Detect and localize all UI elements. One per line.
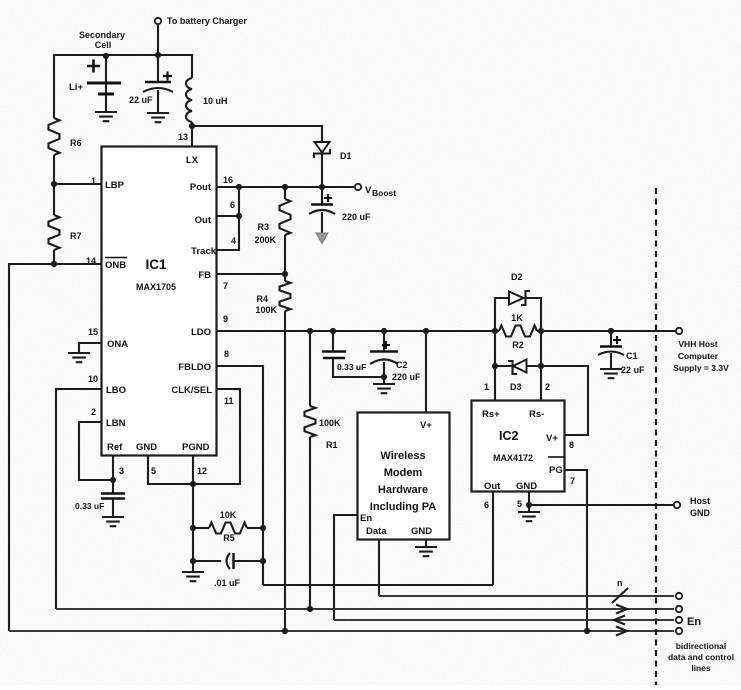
pin 8 FBLDO: [178, 349, 229, 373]
svg-text:D3: D3: [510, 382, 522, 392]
resistor R2 1K: [495, 313, 541, 350]
svg-text:.01 uF: .01 uF: [214, 578, 241, 588]
terminal To-battery-Charger: [155, 16, 248, 55]
bus width marker n: [612, 578, 628, 603]
svg-text:10K: 10K: [220, 510, 237, 520]
pin 5 GND: [136, 442, 157, 476]
svg-text:bidirectional: bidirectional: [676, 641, 727, 651]
node charger junction: [155, 52, 161, 58]
svg-text:Wireless: Wireless: [380, 450, 425, 462]
resistor R6: [49, 118, 82, 155]
node R2 right junction: [538, 328, 544, 334]
svg-text:Boost: Boost: [372, 188, 396, 198]
svg-text:LBN: LBN: [106, 418, 126, 429]
wire R1 bottom to bus: [309, 437, 311, 609]
wire bus line 2: [56, 608, 674, 610]
wire GND pin 5 to CLK/SEL: [148, 389, 240, 484]
svg-text:Computer: Computer: [678, 351, 719, 361]
node modem V+ junction: [423, 328, 429, 334]
svg-text:8: 8: [224, 349, 229, 359]
wire ONA ground stub: [79, 343, 101, 353]
terminal bus4: [676, 628, 682, 634]
terminal VBoost: [355, 184, 396, 198]
svg-text:12: 12: [197, 466, 207, 476]
node battery junction: [103, 53, 109, 59]
battery B1 Li+: [69, 55, 121, 112]
svg-text:R4: R4: [256, 294, 268, 304]
ground battery: [95, 112, 117, 121]
svg-text:8: 8: [569, 440, 574, 450]
svg-text:En: En: [687, 616, 701, 628]
wire R4 bottom to bus: [284, 311, 286, 631]
svg-text:Out: Out: [484, 481, 501, 492]
svg-text:Modem: Modem: [384, 467, 423, 479]
svg-text:4: 4: [231, 236, 236, 246]
svg-text:PGND: PGND: [182, 442, 210, 453]
svg-text:5: 5: [151, 466, 156, 476]
node FB junction: [282, 271, 288, 277]
resistor R5 10K: [193, 510, 263, 543]
inductor L1 10uH: [186, 78, 228, 126]
node Pout junction: [236, 184, 242, 190]
svg-text:n: n: [617, 578, 623, 588]
svg-text:GND: GND: [690, 508, 711, 518]
node cap33 top junction: [330, 328, 336, 334]
svg-text:7: 7: [223, 281, 228, 291]
node R5 left junction: [190, 525, 196, 531]
svg-text:15: 15: [88, 327, 98, 337]
svg-text:Host: Host: [690, 496, 710, 506]
wire LX to D1: [192, 126, 322, 142]
capacitor C2 220uF: [370, 331, 421, 382]
wire battery top rail: [54, 55, 192, 118]
svg-text:D1: D1: [340, 151, 352, 161]
ground IC2: [518, 505, 540, 521]
capacitor 220uF boost: [309, 187, 371, 244]
label bidirectional lines: [668, 641, 734, 673]
svg-text:Cell: Cell: [95, 40, 112, 50]
node Out junction: [236, 213, 242, 219]
svg-text:V+: V+: [546, 433, 558, 444]
svg-text:MAX4172: MAX4172: [493, 453, 533, 463]
svg-text:D2: D2: [511, 272, 523, 282]
svg-text:FB: FB: [198, 270, 211, 281]
wire bus En line: [334, 619, 674, 621]
svg-text:22 uF: 22 uF: [621, 365, 645, 375]
pin 16 Pout: [190, 175, 233, 193]
capacitor 0.33uF ref: [75, 494, 125, 518]
svg-text:Supply = 3.3V: Supply = 3.3V: [673, 363, 729, 373]
pin 7 FB: [198, 270, 228, 291]
capacitor .01uF: [193, 553, 263, 588]
wire LBN loop: [79, 422, 110, 480]
svg-text:Rs+: Rs+: [482, 409, 500, 420]
wire IC2 GND pin 5: [517, 492, 529, 509]
node ONB junction: [51, 261, 57, 267]
svg-text:VHH Host: VHH Host: [678, 339, 717, 349]
node LX junction 13: [178, 123, 195, 146]
svg-text:CLK/SEL: CLK/SEL: [171, 385, 212, 396]
node R1 top junction: [307, 328, 313, 334]
svg-text:1K: 1K: [511, 313, 523, 323]
svg-text:16: 16: [223, 175, 233, 185]
wire modem V+: [425, 331, 427, 412]
svg-text:R3: R3: [257, 222, 269, 232]
wire ONB to outer left: [9, 264, 101, 631]
svg-text:220 uF: 220 uF: [392, 372, 421, 382]
svg-text:C2: C2: [396, 360, 408, 370]
svg-text:To battery Charger: To battery Charger: [167, 16, 247, 26]
wire R6 to LBP: [53, 155, 55, 184]
wire bus data line: [379, 595, 674, 597]
wire Track pin 4: [216, 187, 239, 250]
ground PGND: [182, 572, 204, 581]
svg-text:R5: R5: [223, 533, 235, 543]
svg-text:data and control: data and control: [668, 652, 734, 662]
svg-text:MAX1705: MAX1705: [136, 282, 176, 292]
svg-text:FBLDO: FBLDO: [178, 362, 211, 373]
svg-text:IC1: IC1: [145, 257, 167, 272]
ground C2: [373, 377, 395, 393]
wire LBO left: [56, 389, 101, 609]
capacitor C1 22uF: [598, 331, 645, 375]
wire host gnd line: [529, 504, 673, 506]
block wireless modem hardware: [358, 413, 450, 540]
pin 4 Track: [191, 236, 236, 257]
terminal bus3: [676, 616, 702, 628]
node R5 right junction: [260, 525, 266, 531]
svg-text:10: 10: [88, 374, 98, 384]
svg-text:En: En: [360, 513, 372, 524]
wire dashed host boundary: [655, 188, 657, 685]
terminal VHH: [673, 328, 729, 373]
svg-text:Hardware: Hardware: [378, 484, 428, 496]
pin 2 LBN: [91, 407, 126, 429]
node filter cap left junction: [190, 558, 196, 564]
svg-text:LBP: LBP: [105, 180, 125, 191]
svg-text:Pout: Pout: [190, 182, 212, 193]
ground C1: [600, 369, 622, 378]
pin 9 LDO: [191, 314, 228, 338]
svg-text:3: 3: [119, 466, 124, 476]
node PG bus junction: [584, 628, 590, 634]
pin 1 LBP: [91, 176, 125, 191]
svg-text:220 uF: 220 uF: [342, 212, 371, 222]
IC IC1 MAX1705: [102, 147, 217, 456]
capacitor 22uF: [129, 55, 173, 113]
wire LDO rail: [216, 330, 675, 332]
resistor R1 100K: [305, 331, 342, 450]
resistor R3 200K: [254, 187, 290, 273]
terminal Host GND: [674, 496, 711, 518]
IC IC2 MAX4172: [472, 401, 565, 493]
wire PGND pin 12: [192, 456, 194, 572]
wire FBLDO branch: [216, 366, 263, 585]
arrow bus4 right: [616, 627, 627, 636]
wire Ref pin 3: [112, 456, 114, 493]
svg-text:R2: R2: [512, 340, 524, 350]
svg-text:ONB: ONB: [105, 260, 126, 271]
node D3 right junction: [538, 363, 544, 369]
svg-text:C1: C1: [626, 351, 638, 361]
ground 22uF cap: [147, 113, 169, 122]
ground modem: [415, 547, 437, 556]
svg-text:LX: LX: [186, 155, 199, 166]
svg-text:0.33 uF: 0.33 uF: [75, 501, 104, 511]
pin 15 ONA: [88, 327, 128, 350]
svg-text:13: 13: [178, 132, 188, 142]
node R1 bus junction: [307, 606, 313, 612]
svg-text:Track: Track: [191, 246, 217, 257]
capacitor 0.33uF ldo: [322, 331, 384, 377]
node C2 bottom junction: [381, 374, 387, 380]
wire Out pin 6: [216, 215, 239, 217]
pin 14 ONB: [86, 256, 127, 271]
arrow bus2 right: [616, 605, 627, 614]
terminal bus2: [676, 606, 682, 612]
svg-text:R7: R7: [70, 231, 82, 241]
svg-text:7: 7: [570, 476, 575, 486]
wire bus line 4: [9, 630, 674, 632]
node Ref junction: [110, 477, 116, 483]
wire Pout to D1 node: [285, 186, 354, 188]
wire IC2 PG pin 7: [565, 470, 587, 631]
svg-text:Out: Out: [195, 215, 212, 226]
svg-text:Secondary: Secondary: [79, 30, 125, 40]
svg-text:Ref: Ref: [107, 442, 123, 453]
wire Pout pin 16: [216, 186, 285, 188]
pin 11 CLK/SEL: [171, 385, 233, 406]
svg-text:5: 5: [517, 499, 522, 509]
diode D1: [314, 142, 352, 187]
svg-text:0.33 uF: 0.33 uF: [337, 362, 366, 372]
ground ONA: [68, 353, 90, 362]
node IC2 GND junction: [526, 502, 532, 508]
node D1 cathode junction: [319, 184, 325, 190]
svg-text:1: 1: [484, 382, 489, 392]
node R2 left junction: [492, 328, 498, 334]
svg-text:11: 11: [224, 396, 234, 406]
diode D2: [495, 272, 541, 331]
svg-text:2: 2: [91, 407, 96, 417]
node R4 bus junction: [282, 628, 288, 634]
node PGND junction: [190, 481, 196, 487]
svg-text:Rs-: Rs-: [529, 409, 544, 420]
node D3 left junction: [492, 363, 498, 369]
wire filter to IC2 Out: [263, 584, 493, 586]
svg-text:PG: PG: [549, 465, 563, 476]
svg-text:GND: GND: [136, 442, 157, 453]
svg-text:Including PA: Including PA: [370, 501, 436, 513]
wire modem En: [334, 515, 357, 620]
node R3 top junction: [282, 184, 288, 190]
wire IC2 Out pin 6: [484, 492, 493, 585]
wire modem GND: [425, 540, 427, 547]
diode D3: [495, 331, 541, 392]
node filter cap right junction: [260, 558, 266, 564]
svg-text:100K: 100K: [255, 305, 277, 315]
svg-text:10 uH: 10 uH: [203, 96, 228, 106]
resistor R4 100K: [255, 274, 290, 315]
pin 12 PGND: [182, 442, 210, 476]
wire LBP: [54, 183, 101, 185]
node C1 top junction: [608, 328, 614, 334]
svg-text:Data: Data: [366, 526, 387, 537]
svg-text:6: 6: [230, 200, 235, 210]
ground ref cap: [102, 517, 124, 526]
svg-text:9: 9: [223, 314, 228, 324]
pin 10 LBO: [88, 374, 126, 396]
svg-text:GND: GND: [411, 526, 432, 537]
svg-text:R1: R1: [326, 440, 338, 450]
svg-text:22 uF: 22 uF: [129, 95, 153, 105]
svg-text:LBO: LBO: [106, 385, 126, 396]
svg-text:V: V: [365, 185, 372, 196]
svg-text:GND: GND: [516, 481, 537, 492]
wire IC2 V+ pin 8: [541, 366, 588, 450]
pin 6 Out: [195, 200, 235, 226]
svg-text:IC2: IC2: [499, 429, 519, 443]
svg-text:6: 6: [484, 500, 489, 510]
wire IC2 pin1: [484, 366, 495, 400]
svg-text:100K: 100K: [319, 418, 341, 428]
node LBP junction: [51, 181, 57, 187]
svg-text:V+: V+: [420, 420, 432, 431]
terminal bus1: [676, 593, 682, 599]
wire modem Data: [378, 540, 380, 596]
svg-text:lines: lines: [691, 663, 711, 673]
svg-text:R6: R6: [70, 138, 82, 148]
wire IC2 pin2: [541, 366, 550, 400]
svg-text:200K: 200K: [254, 235, 276, 245]
svg-text:LDO: LDO: [191, 327, 211, 338]
resistor R7: [49, 184, 82, 264]
label Secondary Cell: [79, 30, 125, 50]
wire FB pin 7: [216, 273, 285, 275]
svg-text:2: 2: [545, 382, 550, 392]
arrow bus3 left: [614, 616, 625, 625]
node C2 top junction: [381, 328, 387, 334]
svg-text:ONA: ONA: [107, 339, 128, 350]
pin 3 Ref: [107, 442, 124, 476]
svg-text:Li+: Li+: [69, 82, 83, 93]
